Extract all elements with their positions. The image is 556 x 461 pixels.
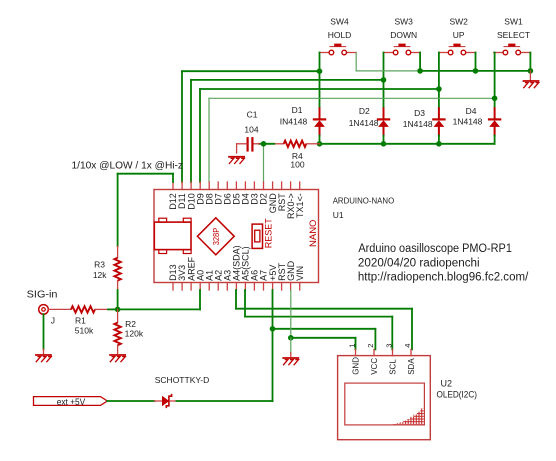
svg-text:2: 2 (366, 344, 375, 348)
title line 3 (358, 272, 529, 284)
oled screen (345, 383, 425, 425)
wire D1 bottom (319, 136, 321, 144)
switch SW1 (SELECT) (494, 17, 530, 55)
resistor R1 (71, 306, 108, 335)
wire GND to OLED GND (291, 338, 356, 350)
switch SW4 (HOLD) (320, 17, 356, 55)
svg-text:HOLD: HOLD (328, 30, 352, 40)
svg-text:2020/04/20 radiopenchi: 2020/04/20 radiopenchi (358, 257, 480, 269)
ground at nano GND (283, 358, 298, 365)
wire J to R1 (48, 308, 71, 310)
wire D2 bottom (383, 136, 385, 144)
wire C1 junction to nano D2 (263, 144, 265, 182)
label 1/10x @LOW / 1x @Hi-z (72, 160, 184, 172)
svg-text:DOWN: DOWN (390, 30, 417, 40)
oled pin stubs (356, 349, 412, 355)
svg-text:D3: D3 (414, 108, 425, 118)
op nano box U1 (154, 190, 319, 283)
svg-text:U1: U1 (333, 210, 344, 220)
svg-text:104: 104 (244, 125, 258, 135)
svg-text:SIG-in: SIG-in (27, 289, 58, 301)
svg-text:OLED(I2C): OLED(I2C) (437, 389, 478, 399)
oled pin numbers (347, 344, 412, 348)
wire nano D12 jog to R3 top (118, 174, 173, 247)
svg-text:SW4: SW4 (330, 17, 349, 27)
svg-text:RESET: RESET (263, 218, 273, 249)
nano NANO label (308, 220, 319, 247)
wire D3 bottom (438, 136, 440, 144)
diode D3 (403, 108, 445, 136)
wire flag to schottky (107, 400, 154, 402)
wire R3 bottom to junction (117, 290, 119, 309)
wire ground bus thick segment (420, 70, 530, 72)
svg-text:C1: C1 (247, 110, 258, 120)
wire D4 bottom (494, 136, 496, 144)
wire schottky to +5V riser (177, 400, 273, 402)
junction R1/R2/R3/A0 (115, 307, 121, 313)
svg-text:ARDUINO-NANO: ARDUINO-NANO (333, 195, 395, 205)
junction C1/R4/D2 (261, 141, 267, 147)
svg-text:http://radiopench.blog96.fc2.c: http://radiopench.blog96.fc2.com/ (358, 272, 529, 284)
wire junction to nano A0 (118, 290, 200, 309)
wire GND junction to ground (290, 338, 292, 357)
junction bus B at SW3 left (381, 77, 387, 83)
ground at R2 (110, 355, 125, 362)
oled box U2 (338, 356, 431, 440)
junction SW2 right (473, 68, 479, 74)
connector J SIG-in (27, 289, 58, 326)
wire SW3 left pin to D2 (383, 53, 385, 109)
nano bottom pin stubs (173, 283, 300, 291)
title line 1 (358, 243, 512, 255)
wire D8 bus thin (nano D8 to SW1/D4) (209, 98, 495, 182)
svg-text:VCC: VCC (370, 358, 379, 375)
svg-text:R3: R3 (94, 259, 105, 269)
svg-text:D2: D2 (359, 106, 370, 116)
svg-text:1: 1 (347, 344, 356, 348)
oled pin names (352, 357, 417, 375)
nano 328P diamond (197, 218, 234, 255)
svg-text:328P: 328P (212, 227, 221, 245)
svg-text:U2: U2 (441, 379, 453, 389)
label U1 (333, 210, 344, 220)
wire SW4 left pin to D1 (319, 53, 321, 109)
wire D11 bus (nano D11 to SW4/D1) (182, 71, 320, 182)
junction bus D at SW1 left (492, 96, 498, 102)
svg-text:NANO: NANO (308, 220, 319, 247)
label OLED(I2C) (437, 389, 478, 399)
svg-text:1N4148: 1N4148 (349, 118, 379, 128)
wire diode anode bus (320, 143, 495, 145)
ground at C1 (229, 157, 244, 164)
svg-text:UP: UP (453, 30, 465, 40)
wire SW3 right pin down (419, 53, 421, 71)
junction GND / OLED GND (288, 335, 294, 341)
diode D4 (453, 106, 501, 135)
diode D2 (349, 106, 389, 135)
svg-text:4: 4 (403, 344, 412, 348)
junction bus A at SW4 left (317, 68, 323, 74)
nano bottom pin labels (168, 245, 305, 281)
svg-text:1N4148: 1N4148 (453, 117, 483, 127)
resistor R2 (114, 309, 143, 353)
nano top pin stubs (173, 182, 300, 190)
svg-text:510k: 510k (75, 325, 94, 335)
svg-text:D1: D1 (292, 105, 303, 115)
junction bus at D2 (381, 141, 387, 147)
svg-text:R2: R2 (125, 319, 136, 329)
label ARDUINO-NANO (333, 195, 395, 205)
svg-text:VIN: VIN (295, 266, 305, 281)
svg-text:SCL: SCL (389, 359, 398, 375)
diode D1 (280, 105, 325, 136)
wire R1 to junction (108, 308, 118, 310)
svg-text:1/10x @LOW / 1x @Hi-z: 1/10x @LOW / 1x @Hi-z (72, 160, 184, 172)
resistor R4 (274, 141, 319, 170)
wire J to ground (43, 314, 45, 353)
svg-text:GND: GND (352, 357, 361, 375)
ground at J (36, 355, 51, 362)
wire D10 bus (nano D10 to SW3/D2) (191, 80, 384, 182)
oled screen waveform hatch (393, 409, 424, 425)
svg-text:IN4148: IN4148 (280, 117, 308, 127)
svg-text:SELECT: SELECT (497, 30, 530, 40)
nano RESET button (252, 218, 273, 249)
wire nano GND down (290, 290, 292, 338)
title line 2 (358, 257, 480, 269)
nano top pin labels (168, 193, 305, 219)
wire SW2 right pin down (475, 53, 477, 71)
svg-text:SDA: SDA (407, 358, 416, 375)
junction bus at D3 (436, 141, 442, 147)
svg-text:J: J (51, 316, 55, 326)
switch SW2 (UP) (439, 17, 475, 55)
wire SW2 left pin to D3 (438, 53, 440, 109)
svg-text:TX1<-: TX1<- (295, 193, 305, 218)
wire nano A4 to OLED SDA (236, 290, 412, 349)
svg-text:12k: 12k (93, 270, 107, 280)
supply flag ext +5V (34, 397, 108, 407)
svg-text:1N4148: 1N4148 (403, 119, 433, 129)
svg-text:D4: D4 (466, 106, 477, 116)
nano USB connector (154, 218, 191, 253)
diode SCHOTTKY-D (154, 375, 209, 408)
junction SW1 right (528, 68, 534, 74)
svg-text:R1: R1 (75, 316, 86, 326)
label U2 (441, 379, 453, 389)
svg-text:3: 3 (384, 344, 393, 348)
ground at SW1 (523, 71, 538, 88)
svg-text:120k: 120k (125, 329, 144, 339)
wire SW1 left pin to D4 (494, 53, 496, 109)
wire nano +5V riser (272, 290, 274, 401)
switch SW3 (DOWN) (384, 17, 420, 55)
wire D9 bus (nano D9 to SW2/D3) (200, 89, 439, 182)
wire SW4 right pin down (355, 53, 357, 71)
junction bus C at SW2 left (436, 86, 442, 92)
junction bus at D1/R4 (317, 141, 323, 147)
svg-text:SW1: SW1 (504, 17, 523, 27)
svg-text:ext +5V: ext +5V (57, 397, 86, 407)
svg-text:100: 100 (290, 159, 304, 169)
svg-text:SW3: SW3 (394, 17, 413, 27)
svg-text:SW2: SW2 (449, 17, 468, 27)
wire ground bus thin segment (356, 70, 420, 72)
wire nano A5 to OLED SCL (245, 290, 392, 349)
svg-text:Arduino oasilloscope PMO-RP1: Arduino oasilloscope PMO-RP1 (358, 243, 512, 255)
capacitor C1 (237, 110, 275, 154)
wire +5V to OLED VCC (273, 329, 376, 350)
junction SW3 right (417, 68, 423, 74)
wire SW1 right pin down (529, 53, 531, 71)
svg-text:SCHOTTKY-D: SCHOTTKY-D (155, 375, 209, 385)
junction +5V / OLED VCC (270, 326, 276, 332)
resistor R3 (93, 246, 121, 290)
